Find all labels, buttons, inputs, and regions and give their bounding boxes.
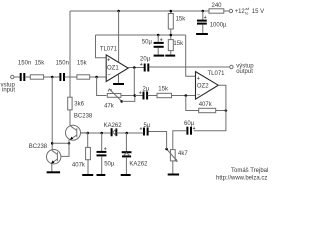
ground under 407k [82, 174, 93, 176]
node Q1 collector junction [51, 142, 54, 145]
svg-text:150n: 150n [56, 61, 69, 67]
svg-text:KA262: KA262 [129, 162, 148, 168]
svg-text:OZ1: OZ1 [107, 65, 119, 71]
wire top +V rail [70, 10, 209, 12]
resistor 15k stage2 [148, 95, 157, 97]
svg-text:−: − [197, 92, 200, 98]
ground under 15k lower [165, 55, 175, 57]
ground under 50u bias [154, 55, 165, 57]
wire to OZ2 inverting [172, 95, 196, 97]
svg-text:+12: +12 [235, 9, 246, 15]
node bias 50u [157, 34, 160, 37]
node KA262 junction [125, 132, 128, 135]
svg-text:+: + [107, 57, 110, 63]
ground under KA262 [121, 174, 131, 176]
wire top rail right segment to terminal [224, 10, 229, 12]
transistor Q1 BC238 [47, 150, 61, 164]
diode KA262 vertical [125, 133, 127, 151]
wire OZ1 output [128, 67, 144, 69]
wire with node [44, 76, 60, 78]
capacitor C 150n first [20, 73, 22, 81]
svg-text:OZ2: OZ2 [197, 83, 209, 89]
terminal +12V [229, 9, 232, 12]
capacitor 60u [186, 127, 188, 135]
wire wiper to 5u [148, 132, 166, 150]
svg-text:50µ: 50µ [142, 40, 153, 46]
wire feedback vertical from output [133, 68, 135, 96]
wire vystup line [149, 66, 230, 68]
wire [25, 76, 30, 78]
svg-text:+: + [204, 15, 207, 21]
svg-text:−: − [108, 73, 111, 79]
svg-text:15k: 15k [173, 41, 184, 47]
svg-text:TL071: TL071 [208, 71, 226, 77]
node 407k bottom [86, 132, 89, 135]
node OZ1 inverting [95, 76, 98, 79]
svg-text:Tomáš Trejbal: Tomáš Trejbal [231, 168, 268, 174]
transistor Q2 BC238 [66, 125, 81, 140]
node feedback / 2u [134, 94, 137, 97]
node 1000u junction [202, 10, 205, 13]
ground under 4k7 [168, 174, 179, 176]
svg-text:output: output [236, 69, 253, 75]
svg-text:+: + [139, 90, 142, 96]
node 50u bottom [100, 132, 103, 135]
wire left +V rail [69, 11, 71, 97]
node divider top [170, 10, 173, 13]
resistor 407k shunt [87, 133, 89, 147]
node 4k7 wiper [165, 148, 168, 151]
svg-text:4k7: 4k7 [178, 151, 188, 157]
capacitor 1000u [202, 11, 204, 20]
capacitor 5u [143, 128, 145, 136]
terminal vstup input [11, 75, 14, 78]
wire input [14, 76, 20, 78]
svg-text:15k: 15k [158, 86, 169, 92]
svg-text:5µ: 5µ [144, 123, 151, 129]
node OZ2 inverting [185, 94, 188, 97]
svg-text:TL071: TL071 [100, 46, 118, 52]
svg-text:47k: 47k [104, 104, 115, 110]
svg-text:1000µ: 1000µ [210, 22, 227, 28]
wire Q1 emitter to ground [51, 164, 53, 172]
node OZ1 supply tap [117, 10, 120, 13]
node junction to Q1 [51, 76, 54, 79]
svg-text:input: input [2, 88, 15, 94]
capacitor 2u [135, 95, 143, 97]
svg-text:+: + [104, 146, 107, 152]
svg-text:407k: 407k [199, 102, 213, 108]
svg-text:KA262: KA262 [104, 123, 123, 129]
wire to OZ1 inverting input [90, 76, 107, 78]
ground OZ1 [118, 75, 120, 84]
wire feedback node to 47k [97, 77, 107, 96]
resistor 3k6 [68, 97, 72, 110]
node OZ2 output junction [225, 109, 228, 112]
svg-text:15k: 15k [176, 17, 187, 23]
svg-text:50µ: 50µ [104, 162, 115, 168]
resistor 15k divider upper [168, 14, 173, 30]
svg-text:15k: 15k [77, 61, 88, 67]
terminal vystup output [230, 65, 233, 68]
svg-text:407k: 407k [72, 163, 86, 169]
wire crossing left rail [65, 76, 77, 78]
op-amp U2 TL071 OZ2 [196, 72, 219, 100]
resistor 15k divider lower [168, 40, 173, 51]
svg-text:+: + [160, 38, 163, 44]
svg-text:BC238: BC238 [29, 144, 48, 150]
node Q2 emitter junction [68, 142, 71, 145]
wire 5u to rectifier node [127, 132, 144, 134]
svg-text:http://www.belza.cz: http://www.belza.cz [216, 176, 267, 182]
svg-text:15k: 15k [35, 61, 46, 67]
svg-text:to: to [245, 11, 248, 16]
capacitor 50u bottom [101, 133, 103, 151]
resistor 15k first [30, 75, 43, 79]
ground under 50u bottom [97, 174, 106, 176]
svg-text:240: 240 [212, 3, 223, 9]
capacitor 50u bias [157, 35, 159, 42]
ground under 1000u [196, 33, 208, 35]
wire Q2 emitter to Q1 base [61, 140, 69, 157]
node divider mid [170, 34, 173, 37]
wire OZ1 + input feed [96, 35, 107, 58]
resistor 407k OZ2 feedback [186, 96, 199, 111]
svg-text:+: + [140, 127, 143, 133]
svg-text:+: + [140, 62, 143, 68]
svg-text:2µ: 2µ [143, 86, 150, 92]
wire bias rail [96, 34, 186, 36]
wire OZ1 supply line [118, 11, 120, 62]
svg-text:3k6: 3k6 [74, 102, 84, 108]
svg-text:BC238: BC238 [74, 113, 93, 119]
wire 60u to 4k7 top [173, 131, 187, 150]
wire 3k6 to Q2 collector [69, 110, 71, 126]
wire wiper strap [122, 96, 135, 102]
op-amp U1 TL071 OZ1 [106, 55, 128, 82]
svg-text:+: + [193, 126, 196, 132]
wire OZ2 output down [194, 85, 226, 131]
capacitor 20u [144, 64, 146, 72]
trimmer 4k7 [170, 150, 175, 161]
svg-text:+: + [197, 76, 200, 82]
node 47k wiper strap [120, 100, 123, 103]
resistor 15k second [77, 75, 90, 79]
svg-text:15 V: 15 V [252, 9, 264, 15]
svg-text:150n: 150n [18, 61, 31, 67]
wire bottom control rail [81, 132, 112, 134]
diode KA262 horizontal [111, 128, 113, 136]
trimmer 47k [107, 94, 121, 98]
ground under Q1 [47, 171, 61, 173]
wire collector node to Q2 emitter line [52, 142, 69, 144]
node OZ1 output [133, 66, 136, 69]
capacitor C 150n second [59, 73, 61, 81]
wire OZ2 + input feed [186, 35, 196, 76]
wire Q1 base drop from signal node [51, 77, 53, 150]
resistor 240 [209, 9, 224, 13]
